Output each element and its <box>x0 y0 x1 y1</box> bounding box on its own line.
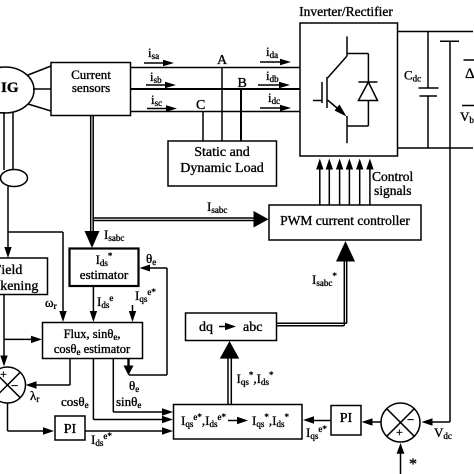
svg-text:sensors: sensors <box>72 80 110 95</box>
control signal wires (6) <box>316 159 374 206</box>
Ids* estimator box <box>70 249 139 287</box>
svg-text:C: C <box>196 98 205 113</box>
svg-text:Δ: Δ <box>465 66 474 82</box>
label Iqs-e* <box>129 287 157 322</box>
wire Vdc into summer2 <box>422 418 452 441</box>
wire phase c <box>131 111 301 113</box>
svg-text:Control: Control <box>372 169 414 184</box>
PI controller 2 <box>331 406 361 436</box>
wire cos theta-e <box>61 359 173 424</box>
wire Isabc* double line dq-abc to PWM <box>277 241 356 326</box>
label idc <box>260 90 291 111</box>
svg-text:IG: IG <box>1 80 19 96</box>
wire speed to field weakening <box>4 187 11 259</box>
svg-text:abc: abc <box>243 320 262 335</box>
svg-text:B: B <box>238 76 247 91</box>
svg-text:cosθe: cosθe <box>61 394 89 410</box>
wire lambda-r <box>26 359 71 405</box>
label ida <box>260 44 291 65</box>
wire sin theta-e <box>113 359 173 416</box>
svg-text:weakening: weakening <box>0 279 38 294</box>
svg-text:Inverter/Rectifier: Inverter/Rectifier <box>299 4 393 19</box>
svg-text:PI: PI <box>64 422 77 437</box>
svg-text:PWM current controller: PWM current controller <box>280 213 410 228</box>
wire phase b <box>131 88 301 90</box>
label theta-e into estimator <box>140 251 168 272</box>
diode D1 <box>347 54 378 127</box>
summing junction S2 <box>381 403 420 442</box>
static and dynamic load box <box>168 141 277 186</box>
wire dc bus bottom <box>398 147 474 149</box>
node A <box>217 53 228 141</box>
wire IG to sensors (3 leads) <box>28 66 51 111</box>
induction generator IG <box>0 67 34 113</box>
svg-text:Flux, sinθe,: Flux, sinθe, <box>64 327 121 342</box>
wire theta-e feedback <box>129 268 167 375</box>
svg-text:cosθe estimator: cosθe estimator <box>54 342 131 357</box>
svg-text:Field: Field <box>0 263 22 278</box>
IGBT Q1 <box>313 36 347 143</box>
wire dc bus top <box>398 31 474 33</box>
label isb <box>146 69 176 88</box>
current sensors box <box>51 63 131 116</box>
battery Vb (cut off at edge) <box>460 60 474 125</box>
dq to abc box <box>186 313 277 341</box>
shaft wires <box>4 112 13 170</box>
label Ids-e <box>90 286 114 322</box>
inverter/rectifier box U1 <box>299 4 397 156</box>
label isc <box>147 92 177 112</box>
wire Isabc double line to PWM <box>93 199 268 228</box>
wire Iqs*,Ids* double line up to dq-abc <box>220 341 274 405</box>
svg-text:PI: PI <box>340 411 353 426</box>
wire Vdc sense <box>449 41 451 422</box>
transform box Iqs/Ids <box>174 405 303 440</box>
svg-text:signals: signals <box>374 183 412 198</box>
wire summer1 to PI1 <box>8 403 55 435</box>
wire Isabc double line down from sensors <box>85 116 125 249</box>
summing junction S1 <box>0 367 26 403</box>
svg-text:*: * <box>409 456 417 473</box>
svg-text:dq: dq <box>199 320 213 335</box>
PI controller 1 <box>55 416 85 440</box>
svg-text:Dynamic Load: Dynamic Load <box>180 161 264 176</box>
svg-text:estimator: estimator <box>80 267 129 282</box>
label control signals <box>372 169 414 198</box>
node C <box>196 98 205 141</box>
PWM current controller box <box>269 205 421 240</box>
wire PI1 to transform box, label Ids-e* <box>85 427 173 448</box>
wire summer2 to PI2 <box>362 418 382 425</box>
wire wr from tacho <box>8 232 67 322</box>
battery tap bar <box>440 40 459 42</box>
capacitor Cdc <box>404 32 439 149</box>
svg-text:+: + <box>0 367 7 381</box>
field weakening box <box>0 258 48 295</box>
svg-text:−: − <box>11 378 18 393</box>
wire theta-e output <box>124 359 140 395</box>
wire Vdc* reference into summer2 <box>397 443 417 474</box>
svg-text:−: − <box>407 412 414 427</box>
wire to flux box left <box>4 336 42 343</box>
wire PI2 to transform box, label Iqs-e* <box>303 416 331 441</box>
svg-text:Static and: Static and <box>194 145 250 160</box>
wire phase a <box>131 67 301 69</box>
node B <box>238 76 247 141</box>
svg-text:+: + <box>396 425 403 439</box>
label isa <box>144 45 174 66</box>
flux estimator box <box>43 323 143 359</box>
tachometer <box>1 170 28 187</box>
wire field weakening to summer <box>0 295 7 367</box>
svg-text:A: A <box>217 53 228 68</box>
label idb <box>258 68 290 88</box>
